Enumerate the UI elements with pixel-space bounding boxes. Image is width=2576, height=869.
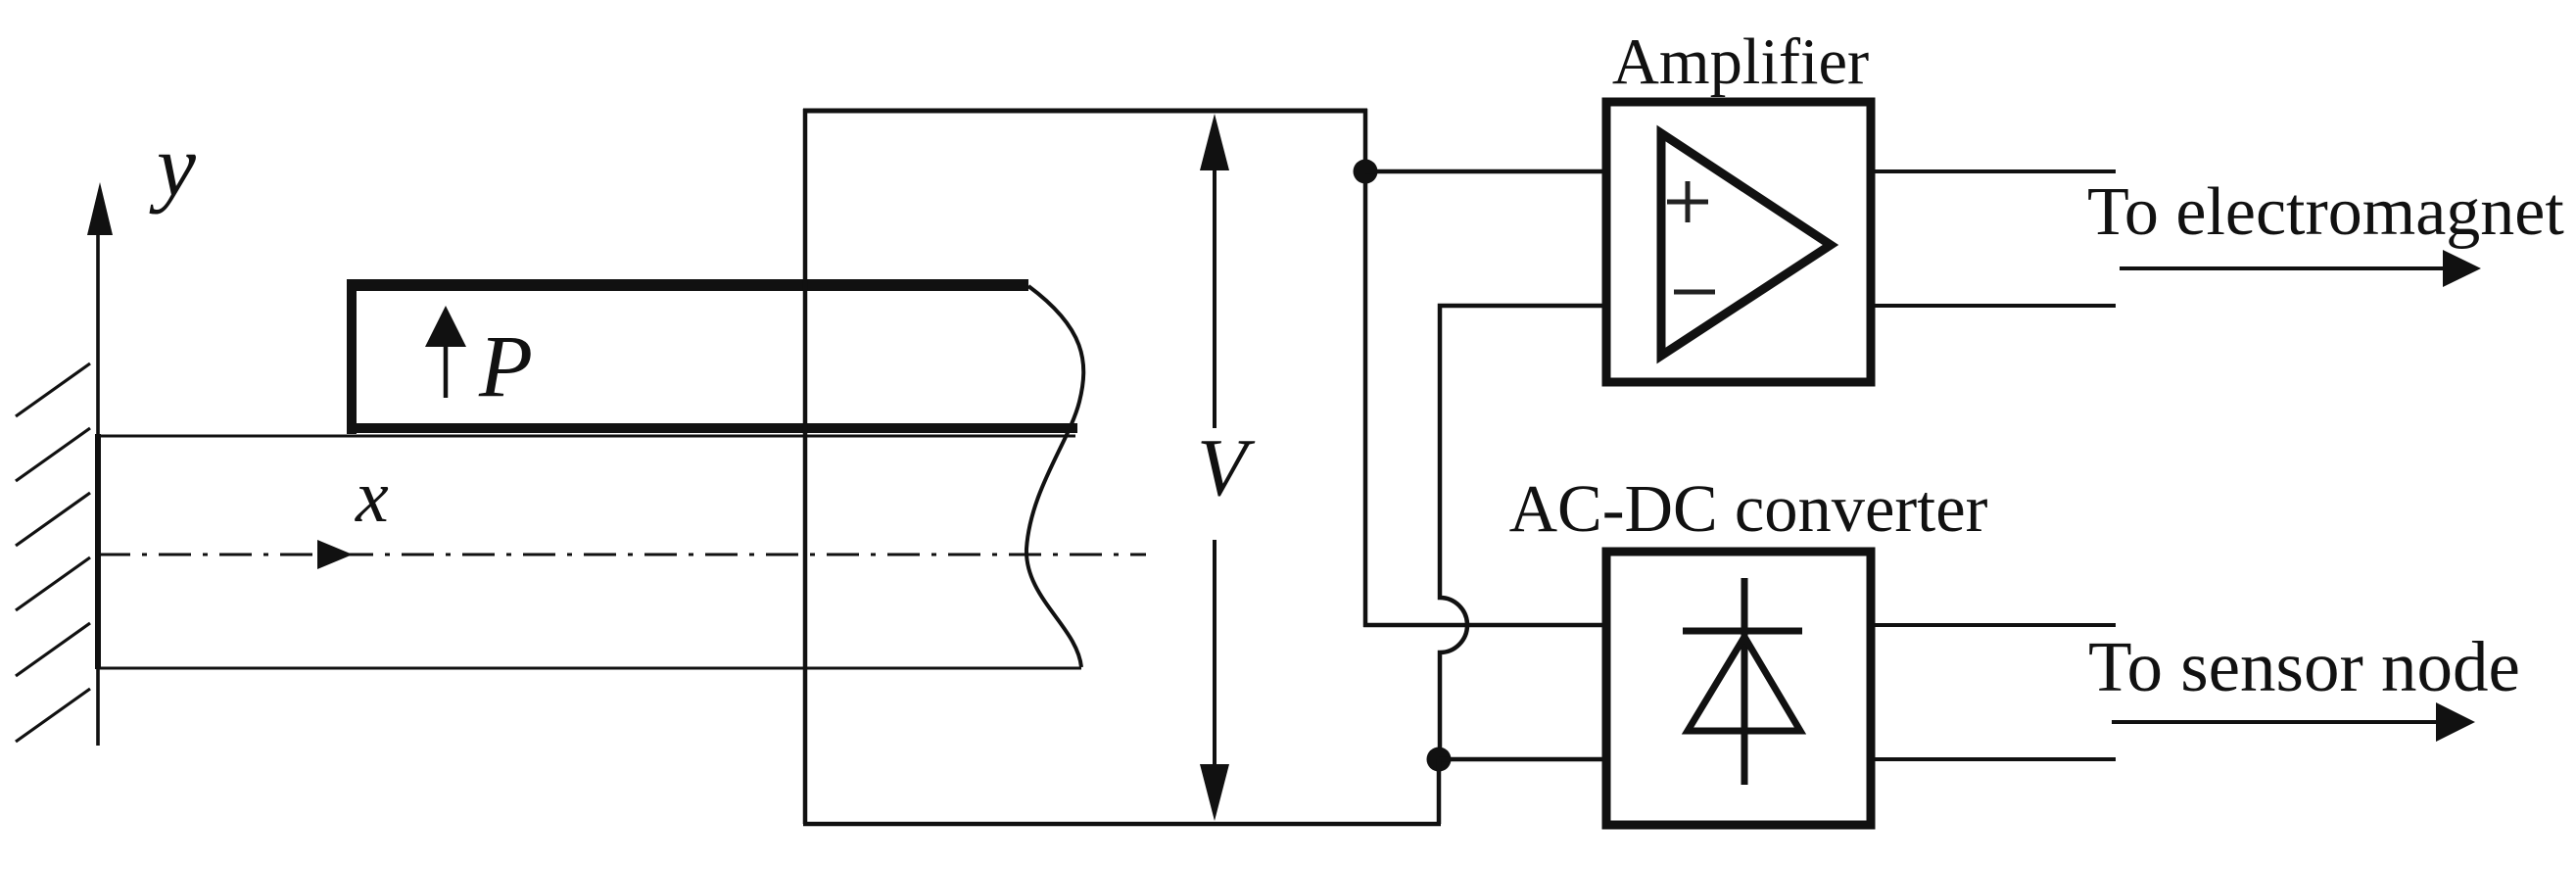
junction dot (AC-DC bottom tap) [1427, 748, 1452, 772]
substrate beam bottom line [98, 667, 1081, 670]
svg-text:V: V [1197, 422, 1256, 513]
diode cathode bar [1683, 628, 1802, 635]
svg-text:To electromagnet: To electromagnet [2087, 174, 2564, 250]
diode vertical lead [1741, 578, 1748, 785]
clamped beam edge [95, 434, 101, 669]
wall line (fixed support) [96, 206, 100, 746]
V arrowhead bottom [1200, 764, 1229, 821]
amplifier box U1 [1606, 102, 1871, 382]
x-axis arrowhead [317, 540, 353, 569]
V arrowhead top [1200, 114, 1229, 170]
piezoelectric layer top electrode (thick) [347, 279, 1028, 291]
electrode wire: bottom horizontal [803, 822, 1441, 827]
svg-text:AC-DC converter: AC-DC converter [1509, 471, 1988, 546]
junction dot (amplifier + tap) [1354, 160, 1378, 184]
wire to AC-DC bottom input [1439, 757, 1602, 762]
svg-text:P: P [478, 318, 533, 415]
V measurement double arrow shaft (lower) [1213, 540, 1216, 772]
diode triangle [1688, 637, 1800, 731]
wire: right vertical from top line to AC-DC input [1363, 109, 1368, 627]
y-axis arrowhead [87, 182, 113, 235]
svg-text:y: y [149, 118, 196, 215]
wire: bottom line corner up to dot [1437, 759, 1442, 824]
AC-DC output wires [1875, 623, 2116, 627]
wire from amplifier - input going down with hop [1440, 306, 1602, 759]
piezoelectric layer bottom electrode (thick) [347, 423, 1077, 433]
op-amp - input marking [1674, 290, 1715, 295]
wall hatching [16, 363, 90, 742]
AC-DC converter box [1606, 552, 1871, 825]
arrow to electromagnet [2120, 266, 2449, 270]
electrode wire: top lead (left vertical) [803, 109, 808, 824]
svg-text:x: x [355, 456, 389, 538]
op-amp triangle [1661, 133, 1831, 356]
V measurement double arrow shaft (upper) [1213, 165, 1216, 428]
amplifier output wires [1875, 169, 2116, 173]
x-axis centerline (dash-dot) [98, 554, 1146, 556]
svg-text:Amplifier: Amplifier [1612, 26, 1869, 98]
svg-text:To sensor node: To sensor node [2088, 627, 2520, 706]
substrate beam top line [98, 435, 1075, 438]
wire: horizontal to AC-DC top input [1363, 623, 1602, 628]
op-amp + input marking [1667, 181, 1708, 222]
load arrow P [444, 343, 449, 398]
piezoelectric layer left edge [347, 279, 357, 434]
arrow to sensor node [2112, 720, 2441, 724]
wire to amplifier + input [1365, 169, 1602, 174]
beam break S-curve [1026, 286, 1083, 667]
electrode wire: top horizontal [803, 109, 1367, 114]
